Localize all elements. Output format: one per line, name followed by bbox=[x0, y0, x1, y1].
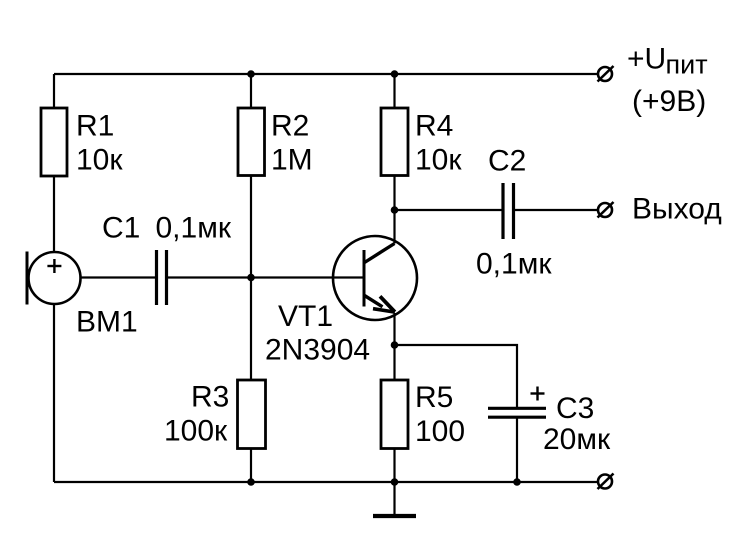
transistor VT1 bbox=[333, 236, 417, 320]
svg-text:C1: C1 bbox=[102, 212, 140, 245]
label R4 value bbox=[415, 110, 462, 177]
wire top power rail bbox=[54, 73, 598, 75]
wire R5 bottom to bottom rail bbox=[393, 449, 395, 483]
node top rail R4 junction bbox=[391, 70, 399, 78]
wire emitter to node bbox=[393, 313, 395, 380]
wire top rail to R4 bbox=[393, 74, 395, 108]
terminal ground bbox=[598, 474, 614, 490]
svg-text:R4: R4 bbox=[415, 110, 453, 143]
wire R4 bottom to collector bbox=[393, 176, 395, 244]
node emitter junction bbox=[391, 341, 399, 349]
svg-text:C3: C3 bbox=[556, 392, 594, 425]
node R3 bottom rail junction bbox=[247, 478, 255, 486]
wire R3 bottom to bottom rail bbox=[250, 449, 252, 483]
microphone BM1 bbox=[29, 252, 81, 304]
svg-text:0,1мк: 0,1мк bbox=[156, 212, 232, 245]
svg-text:R1: R1 bbox=[76, 110, 114, 143]
label C2 value bbox=[476, 145, 552, 281]
resistor R5 bbox=[381, 380, 408, 449]
capacitor C3 bbox=[488, 408, 546, 417]
label C3 value bbox=[543, 392, 611, 456]
wire top rail to R2 bbox=[250, 74, 252, 108]
node R5 bottom rail junction bbox=[391, 478, 399, 486]
wire microphone to C1 bbox=[81, 276, 156, 278]
svg-text:Выход: Выход bbox=[632, 193, 722, 226]
wire R1 bottom to microphone bbox=[53, 176, 55, 253]
resistor R3 bbox=[238, 380, 266, 449]
svg-text:2N3904: 2N3904 bbox=[265, 334, 370, 367]
label output net bbox=[632, 193, 722, 226]
svg-text:C2: C2 bbox=[488, 145, 526, 178]
node top rail R2 junction bbox=[247, 70, 255, 78]
svg-text:BM1: BM1 bbox=[76, 306, 138, 339]
svg-text:1М: 1М bbox=[271, 144, 313, 177]
wire bottom ground rail bbox=[54, 481, 598, 483]
wire C2 to output terminal bbox=[515, 209, 598, 211]
terminal power bbox=[598, 66, 614, 82]
svg-text:R5: R5 bbox=[415, 381, 453, 414]
label R2 value bbox=[271, 110, 313, 177]
wire emitter node to C3 bbox=[395, 345, 518, 407]
wire C3 bottom to bottom rail bbox=[516, 419, 518, 483]
node C3 bottom rail junction bbox=[513, 478, 521, 486]
label VT1 type bbox=[265, 300, 370, 367]
svg-text:10к: 10к bbox=[415, 144, 462, 177]
label C1 value bbox=[102, 212, 232, 245]
svg-text:+U: +U bbox=[627, 42, 666, 75]
resistor R1 bbox=[41, 108, 67, 176]
terminal output bbox=[598, 202, 614, 218]
microphone membrane bar bbox=[26, 252, 29, 305]
svg-text:10к: 10к bbox=[76, 144, 123, 177]
wire microphone bottom to bottom rail bbox=[53, 304, 55, 482]
svg-text:100к: 100к bbox=[164, 415, 228, 448]
capacitor C2 bbox=[503, 183, 514, 239]
microphone plus sign bbox=[47, 259, 61, 273]
capacitor C3 polarity plus bbox=[531, 387, 545, 401]
resistor R4 bbox=[381, 108, 408, 176]
label R5 value bbox=[415, 381, 465, 448]
svg-text:20мк: 20мк bbox=[543, 423, 611, 456]
svg-text:0,1мк: 0,1мк bbox=[476, 248, 552, 281]
label power net bbox=[627, 42, 708, 118]
wire R2 bottom through base node to R3 bbox=[250, 176, 252, 381]
capacitor C1 bbox=[157, 250, 167, 305]
wire left rail from top rail to R1 bbox=[53, 74, 55, 109]
node base junction bbox=[247, 274, 255, 282]
svg-text:R2: R2 bbox=[271, 110, 309, 143]
node output junction bbox=[391, 206, 399, 214]
svg-text:R3: R3 bbox=[191, 381, 229, 414]
wire C1 to base node bbox=[168, 276, 363, 278]
label R1 value bbox=[76, 110, 123, 177]
ground bbox=[373, 482, 416, 516]
svg-text:пит: пит bbox=[666, 50, 708, 80]
svg-text:(+9В): (+9В) bbox=[632, 85, 706, 118]
label R3 value bbox=[164, 381, 229, 448]
resistor R2 bbox=[238, 108, 265, 176]
svg-text:VT1: VT1 bbox=[278, 300, 333, 333]
label BM1 bbox=[76, 306, 138, 339]
wire output node to C2 bbox=[395, 209, 502, 211]
svg-text:100: 100 bbox=[415, 415, 465, 448]
